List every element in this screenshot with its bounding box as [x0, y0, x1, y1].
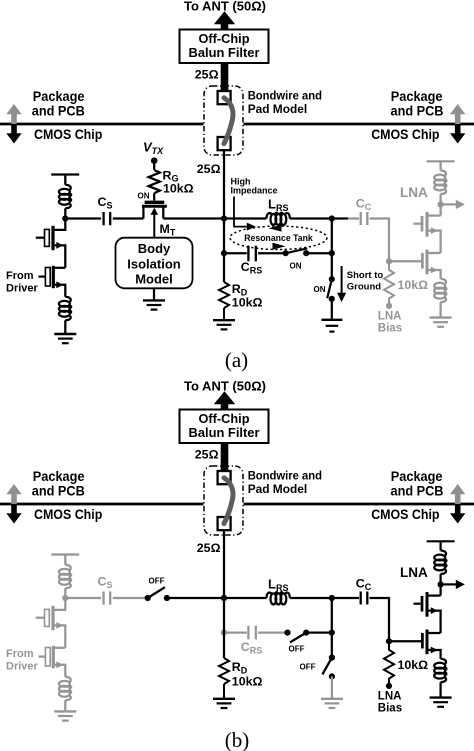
node LNA output gray (a): [438, 201, 444, 207]
wire gate node to LNA input gray (a): [389, 260, 421, 262]
label Off-Chip Balun Filter (b): [189, 412, 260, 440]
wire LRS to right branch (b): [290, 597, 359, 599]
svg-text:25Ω: 25Ω: [195, 67, 219, 81]
svg-text:MT: MT: [160, 222, 176, 237]
right branch vertical wire (b): [331, 598, 333, 658]
wire rail to LNA inductor (b): [439, 541, 441, 550]
capacitor CS (a): [104, 212, 111, 225]
wire CC to LNA gate node gray (a): [370, 219, 390, 262]
resistor RD (b): [219, 658, 229, 684]
antenna arrow up (a): [214, 11, 235, 30]
LNA cascode transistor gray (a): [414, 204, 441, 253]
svg-text:Package: Package: [391, 89, 443, 104]
package/chip boundary double arrow right (a): [450, 104, 465, 144]
LNA load inductor gray (a): [434, 171, 446, 195]
wire inductor to ground TX gray (b): [64, 700, 66, 711]
load inductor TX (a): [59, 185, 71, 209]
body isolation model arrow to MT bulk: [151, 208, 159, 238]
label Package and PCB right (b): [391, 469, 444, 498]
svg-text:Bias: Bias: [378, 323, 402, 335]
capacitor CS gray (b): [104, 592, 111, 605]
driver transistor TX lower gray (b): [39, 646, 66, 677]
ground RD (b): [213, 699, 235, 708]
label Off-Chip Balun Filter (a): [189, 32, 260, 60]
body isolation model box: [116, 238, 193, 289]
svg-text:Body: Body: [138, 241, 171, 256]
svg-text:ON: ON: [138, 192, 150, 201]
wire pad to main node (a): [223, 150, 225, 218]
resistor RG: [149, 170, 160, 193]
wire main node down to RD (a): [223, 219, 225, 283]
supply rail left TX gray (b): [51, 553, 79, 555]
wire main node down to RD (b): [223, 598, 225, 658]
capacitor CRS gray (b): [248, 626, 255, 640]
svg-text:From: From: [6, 270, 34, 282]
antenna arrow up (b): [214, 391, 235, 410]
pad bottom (b): [218, 517, 231, 530]
wire shunt switch to ground gray (b): [331, 676, 333, 698]
resistor RD (a): [219, 282, 229, 308]
wire VTX to RG: [153, 164, 155, 170]
transistor MT drain lead: [162, 207, 164, 218]
node LNA gate gray (a): [386, 258, 392, 264]
svg-text:10kΩ: 10kΩ: [398, 278, 429, 292]
degeneration inductor TX (a): [59, 297, 71, 321]
wire pad to main node (b): [223, 530, 225, 598]
node right branch top (a): [329, 215, 335, 221]
node tank bottom left (a): [221, 250, 227, 256]
high impedance pointer arrow (a): [234, 197, 256, 231]
svg-text:LRS: LRS: [268, 577, 288, 593]
LNA output arrow gray (a): [441, 200, 465, 209]
svg-text:LNA: LNA: [400, 565, 428, 580]
wire CRS left gray (b): [224, 631, 247, 633]
node CRS tap gray (b): [221, 630, 227, 636]
svg-text:(a): (a): [225, 348, 248, 372]
wire switch to right branch (a): [306, 252, 332, 254]
switch CRS ON (a): [283, 248, 310, 256]
svg-text:25Ω: 25Ω: [195, 447, 219, 461]
wire switch to right branch (b): [306, 631, 332, 633]
svg-text:CMOS Chip: CMOS Chip: [34, 507, 102, 522]
bondwire and pad model dash-dot box (a): [204, 86, 243, 155]
node right branch tank (a): [329, 250, 335, 256]
LNA bias node dot gray (a): [386, 303, 392, 309]
wire inductor to node (a): [64, 208, 66, 218]
label From Driver (a): [6, 270, 39, 294]
node right branch tank (b): [329, 630, 335, 636]
pad top (b): [218, 471, 231, 484]
wire LRS to right branch (a): [290, 217, 348, 219]
LNA output arrow (b): [441, 580, 465, 589]
label Package and PCB right (a): [391, 89, 444, 118]
svg-text:CMOS Chip: CMOS Chip: [371, 127, 439, 142]
svg-text:VTX: VTX: [143, 140, 164, 157]
transistor MT gate bar: [145, 201, 165, 204]
wire CRS to switch (a): [258, 252, 286, 254]
capacitor CRS (a): [248, 246, 255, 262]
package/chip boundary double arrow left (b): [6, 484, 21, 524]
wire shunt switch to ground (a): [331, 299, 333, 319]
svg-text:CS: CS: [98, 575, 113, 590]
svg-text:Balun Filter: Balun Filter: [189, 426, 260, 440]
svg-text:CMOS Chip: CMOS Chip: [371, 507, 439, 522]
svg-text:Short to: Short to: [347, 270, 384, 281]
cascode transistor TX upper (a): [36, 219, 66, 268]
label Bondwire and Pad Model (a): [248, 89, 322, 116]
switch shunt ON (a): [327, 276, 335, 302]
svg-text:Off-Chip: Off-Chip: [199, 412, 250, 426]
LNA input transistor gray (a): [422, 250, 440, 279]
node LNA gate (b): [386, 638, 392, 644]
switch CRS OFF (b): [284, 630, 309, 643]
LNA degeneration inductor (b): [434, 659, 446, 683]
svg-text:Driver: Driver: [6, 283, 39, 295]
LNA bias node dot (b): [386, 683, 392, 689]
svg-text:RD: RD: [232, 660, 248, 675]
svg-text:10kΩ: 10kΩ: [398, 658, 429, 672]
svg-text:Pad Model: Pad Model: [248, 102, 308, 116]
node TX output (a): [62, 215, 68, 221]
wire rail to load inductor (a): [64, 175, 66, 185]
VTX node dot: [151, 157, 158, 164]
driver transistor TX lower (a): [39, 266, 66, 297]
ground LNA (b): [430, 698, 452, 707]
label High Impedance (a): [231, 176, 278, 195]
LNA degeneration inductor gray (a): [434, 279, 446, 303]
wire inductor to LNA ground gray (a): [439, 302, 441, 317]
svg-text:CS: CS: [98, 195, 113, 210]
LNA input transistor (b): [422, 630, 440, 659]
wire inductor to ground TX (a): [64, 320, 66, 333]
svg-text:Resonance Tank: Resonance Tank: [244, 233, 313, 243]
svg-text:CC: CC: [356, 577, 372, 592]
svg-text:CMOS Chip: CMOS Chip: [34, 127, 102, 142]
node main junction (a): [221, 215, 227, 221]
pad bottom (a): [218, 137, 231, 150]
wire to CC gray (a): [348, 217, 359, 219]
ground body isolation model: [143, 300, 165, 309]
wire inductor to LNA ground (b): [439, 682, 441, 697]
degeneration inductor TX gray (b): [59, 677, 71, 701]
chip boundary line right (a): [244, 123, 474, 126]
wire CRS to switch gray (b): [258, 631, 285, 633]
svg-text:10kΩ: 10kΩ: [232, 674, 263, 688]
wire RG to MT gate: [153, 193, 155, 200]
svg-text:CRS: CRS: [241, 260, 262, 275]
right branch vertical wire (a): [331, 219, 333, 280]
wire rail to LNA inductor gray (a): [439, 161, 441, 170]
node main junction (b): [221, 595, 227, 601]
label Short to Ground (a): [347, 270, 384, 292]
svg-text:ON: ON: [290, 262, 302, 271]
svg-text:and PCB: and PCB: [391, 103, 444, 118]
svg-text:OFF: OFF: [300, 662, 316, 671]
label Package and PCB left (a): [32, 89, 85, 118]
svg-text:OFF: OFF: [149, 576, 165, 585]
svg-text:Driver: Driver: [6, 661, 39, 673]
svg-text:OFF: OFF: [289, 644, 305, 653]
svg-text:LNA: LNA: [400, 185, 428, 200]
thick feed stub from balun to pad (b): [221, 443, 229, 472]
supply rail left TX (a): [51, 173, 79, 175]
label From Driver gray (b): [6, 648, 39, 672]
svg-text:Ground: Ground: [347, 281, 381, 292]
svg-text:LNA: LNA: [378, 691, 402, 703]
svg-text:LNA: LNA: [378, 311, 402, 323]
svg-text:Balun Filter: Balun Filter: [189, 46, 260, 60]
bondwire and pad model dash-dot box (b): [204, 466, 243, 535]
wire inductor to LNA output node (b): [439, 574, 441, 584]
svg-text:10kΩ: 10kΩ: [232, 295, 263, 309]
label Bondwire and Pad Model (b): [248, 469, 322, 496]
wire inductor to LNA output node gray (a): [439, 194, 441, 204]
LNA cascode transistor (b): [414, 584, 441, 633]
short to ground arrow (a): [337, 266, 346, 302]
svg-text:and PCB: and PCB: [32, 103, 85, 118]
svg-text:and PCB: and PCB: [32, 483, 85, 498]
LNA bias resistor 10k gray (a): [384, 261, 394, 303]
wire rail to load inductor gray (b): [64, 555, 66, 565]
wire switch to main node (b): [167, 597, 267, 599]
svg-text:Off-Chip: Off-Chip: [199, 32, 250, 46]
svg-text:(b): (b): [225, 728, 250, 751]
wire inductor to node gray (b): [64, 588, 66, 598]
wire node to CS (a): [65, 217, 101, 219]
svg-text:LRS: LRS: [268, 197, 288, 213]
wire RD to ground (a): [223, 308, 225, 320]
ground shunt (a): [321, 320, 342, 332]
svg-text:To ANT (50Ω): To ANT (50Ω): [184, 0, 266, 13]
svg-text:and PCB: and PCB: [391, 483, 444, 498]
wire RD to ground (b): [223, 684, 225, 698]
svg-text:ON: ON: [314, 285, 326, 294]
wire CS to switch gray (b): [113, 597, 148, 599]
capacitor CC (b): [361, 592, 368, 605]
svg-text:Bondwire and: Bondwire and: [248, 469, 322, 483]
thick feed stub from balun to pad (a): [221, 63, 229, 92]
cascode transistor TX upper gray (b): [36, 598, 66, 648]
LNA bias resistor 10k (b): [384, 641, 394, 683]
tank circulation arrow top (a): [269, 225, 282, 232]
ground shunt gray (b): [321, 699, 343, 708]
node right branch top (b): [329, 595, 335, 601]
inductor LRS (b): [266, 592, 290, 604]
ground TX branch (a): [54, 334, 76, 343]
load inductor TX gray (b): [59, 565, 71, 589]
ground TX branch gray (b): [54, 711, 76, 720]
svg-text:Bias: Bias: [378, 703, 402, 715]
svg-text:Model: Model: [135, 272, 173, 287]
LNA supply rail (b): [427, 540, 455, 542]
ground RD (a): [213, 320, 235, 329]
chip boundary line left (a): [0, 123, 204, 126]
wire tank bottom left (a): [224, 252, 247, 254]
transistor MT source lead: [142, 207, 144, 218]
pad top (a): [218, 91, 231, 104]
package/chip boundary double arrow left (a): [6, 104, 21, 144]
wire CC to LNA gate node (b): [370, 598, 390, 641]
svg-text:To ANT (50Ω): To ANT (50Ω): [184, 378, 266, 393]
svg-text:From: From: [6, 648, 34, 660]
capacitor CC gray (a): [361, 212, 368, 225]
package/chip boundary double arrow right (b): [450, 484, 465, 524]
svg-text:Isolation: Isolation: [127, 256, 181, 271]
LNA load inductor (b): [434, 551, 446, 575]
node TX output gray (b): [62, 595, 68, 601]
off-chip balun filter box (a): [180, 30, 269, 64]
inductor LRS (a): [266, 213, 290, 225]
svg-text:25Ω: 25Ω: [197, 541, 221, 555]
node LNA output (b): [438, 581, 444, 587]
svg-text:10kΩ: 10kΩ: [163, 182, 194, 196]
main horizontal wire MT to LRS (a): [163, 217, 266, 219]
label LNA Bias gray (a): [378, 311, 402, 335]
svg-text:Pad Model: Pad Model: [248, 482, 308, 496]
svg-text:Package: Package: [33, 89, 85, 104]
wire gate node to LNA input (b): [389, 640, 421, 642]
LNA supply rail gray (a): [427, 160, 455, 162]
bondwire (a): [224, 98, 233, 144]
svg-text:25Ω: 25Ω: [197, 162, 221, 176]
label Body Isolation Model: [127, 241, 181, 287]
transistor MT channel bar: [142, 205, 167, 208]
svg-text:Impedance: Impedance: [231, 185, 278, 195]
ground LNA gray (a): [430, 318, 452, 327]
wire node to CS gray (b): [65, 597, 101, 599]
switch shunt OFF (b): [322, 655, 335, 680]
wire body box to ground: [153, 288, 155, 300]
label Package and PCB left (b): [32, 469, 85, 498]
svg-text:Bondwire and: Bondwire and: [248, 89, 322, 103]
svg-text:Package: Package: [33, 469, 85, 484]
switch CS OFF (b): [145, 587, 170, 601]
tank circulation arrow bottom (a): [273, 243, 286, 250]
svg-text:CRS: CRS: [241, 640, 262, 655]
wire CS to MT (a): [113, 217, 144, 219]
svg-text:CC: CC: [356, 197, 372, 212]
resonance tank dotted ellipse (a): [230, 226, 327, 249]
svg-text:Package: Package: [391, 469, 443, 484]
bondwire (b): [224, 478, 233, 524]
chip boundary line left (b): [0, 503, 204, 506]
off-chip balun filter box (b): [180, 410, 269, 444]
label LNA Bias (b): [378, 691, 402, 715]
chip boundary line right (b): [244, 503, 474, 506]
